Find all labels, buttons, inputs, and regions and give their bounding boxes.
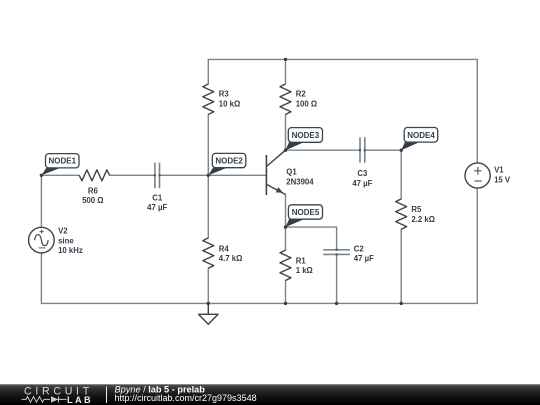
voltage source V2 sine: [29, 227, 83, 256]
svg-text:100 Ω: 100 Ω: [296, 99, 317, 108]
svg-text:R5: R5: [411, 205, 422, 214]
svg-text:47 µF: 47 µF: [352, 179, 372, 188]
resistor R2: [280, 84, 317, 114]
wire C1 to node2: [160, 174, 209, 176]
svg-text:Q1: Q1: [286, 168, 297, 177]
capacitor C2: [323, 244, 374, 263]
svg-text:R4: R4: [219, 244, 230, 253]
wire V2 bottom lead: [40, 253, 42, 304]
transistor Q1: [266, 150, 314, 195]
voltage source V1: [465, 163, 511, 188]
ground: [199, 303, 219, 324]
wire R3 top lead: [207, 59, 209, 84]
svg-text:47 µF: 47 µF: [354, 254, 374, 263]
svg-text:sine: sine: [58, 236, 74, 245]
svg-text:C2: C2: [354, 244, 365, 253]
wire V1 bottom lead: [476, 188, 478, 303]
svg-text:NODE5: NODE5: [292, 208, 320, 217]
junction top rail / R2: [284, 58, 287, 61]
wire emitter to node5: [285, 195, 287, 228]
wire node5 to R1: [285, 227, 287, 250]
svg-text:NODE2: NODE2: [215, 157, 243, 166]
node NODE2 callout: [208, 153, 246, 175]
wire node5 to C2: [286, 227, 337, 250]
wire V1 top lead: [476, 59, 478, 163]
wire C3 to node4: [365, 149, 401, 151]
svg-text:NODE4: NODE4: [407, 131, 435, 140]
svg-text:10 kΩ: 10 kΩ: [219, 99, 240, 108]
junction node NODE5: [284, 225, 287, 228]
resistor R3: [203, 84, 240, 114]
svg-text:4.7 kΩ: 4.7 kΩ: [219, 254, 243, 263]
junction bottom rail / ground: [207, 302, 210, 305]
svg-text:R2: R2: [296, 90, 307, 99]
junction bottom rail / R5: [400, 302, 403, 305]
footer bar: [0, 384, 540, 405]
svg-text:NODE1: NODE1: [49, 157, 77, 166]
resistor R6: [79, 170, 109, 205]
svg-text:10 kHz: 10 kHz: [58, 246, 83, 255]
wire C2 to bottom rail: [336, 254, 338, 303]
wire node2 to R4: [207, 175, 209, 238]
svg-text:http://circuitlab.com/cr27g979: http://circuitlab.com/cr27g979s3548: [115, 393, 257, 403]
svg-text:C3: C3: [357, 169, 368, 178]
capacitor C1: [147, 163, 167, 213]
junction bottom rail / R1: [284, 302, 287, 305]
svg-text:500 Ω: 500 Ω: [82, 196, 103, 205]
resistor R5: [396, 199, 435, 229]
resistor R1: [280, 250, 313, 280]
wire bottom rail: [41, 302, 477, 304]
junction node NODE3: [284, 149, 287, 152]
svg-text:R6: R6: [88, 186, 99, 195]
wire node3 to C3: [286, 149, 361, 151]
wire node4 to R5: [400, 150, 402, 199]
wire R2 top lead: [285, 59, 287, 84]
node NODE1 callout: [41, 154, 79, 176]
svg-text:47 µF: 47 µF: [147, 203, 167, 212]
wire node1 to R6: [41, 174, 79, 176]
wire V2 top lead: [40, 175, 42, 227]
junction node NODE1: [40, 174, 43, 177]
svg-text:15 V: 15 V: [494, 175, 511, 184]
wire R1 to bottom rail: [285, 281, 287, 304]
wire node2 to Q1 base: [208, 174, 266, 176]
svg-text:LAB: LAB: [67, 395, 93, 405]
svg-text:V1: V1: [494, 166, 504, 175]
node NODE4 callout: [401, 128, 438, 151]
svg-text:R3: R3: [219, 90, 230, 99]
wire top rail: [208, 58, 477, 60]
wire R6 to C1: [110, 174, 155, 176]
svg-text:R1: R1: [296, 256, 307, 265]
svg-text:2N3904: 2N3904: [286, 178, 314, 187]
junction node NODE4: [400, 149, 403, 152]
capacitor C3: [352, 137, 372, 188]
svg-text:V2: V2: [58, 227, 68, 236]
wire R4 to ground rail: [207, 268, 209, 303]
footer logo schematic squiggle: [22, 396, 67, 402]
footer separator: [106, 387, 108, 404]
wire R2 to node3: [285, 114, 287, 150]
wire R3 to node2: [207, 114, 209, 175]
svg-text:C1: C1: [152, 193, 163, 202]
resistor R4: [203, 238, 243, 268]
svg-text:1 kΩ: 1 kΩ: [296, 266, 313, 275]
junction node NODE2: [207, 174, 210, 177]
svg-text:NODE3: NODE3: [292, 131, 320, 140]
wire R5 to bottom rail: [400, 229, 402, 303]
junction bottom rail / C2: [335, 302, 338, 305]
svg-text:2.2 kΩ: 2.2 kΩ: [411, 215, 435, 224]
node NODE3 callout: [286, 128, 323, 151]
node NODE5 callout: [286, 205, 323, 227]
